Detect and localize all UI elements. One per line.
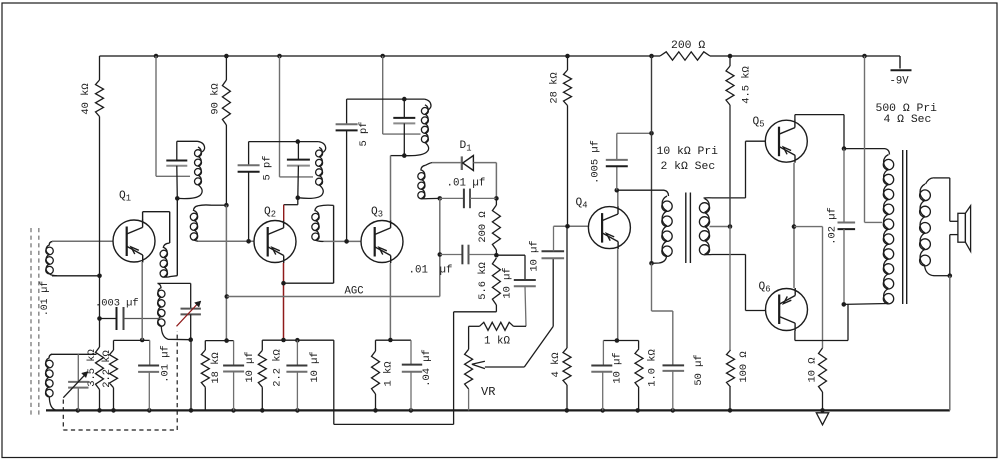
wire speaker lower terminal: [950, 234, 958, 236]
node Q1 base divider: [97, 274, 102, 279]
svg-text:10 µf: 10 µf: [612, 352, 624, 383]
wire 5.6k to bypass route: [454, 311, 497, 313]
wire speaker to ground rail: [949, 235, 951, 276]
svg-text:4 Ω Sec: 4 Ω Sec: [884, 114, 932, 126]
wire output center tap: [864, 56, 866, 222]
node gnd-10uf-b: [295, 408, 300, 413]
node gnd-10uf-c: [600, 408, 605, 413]
node Q4 emitter node: [615, 338, 620, 343]
node gnd-3.5k: [97, 408, 102, 413]
wiper arrow VR: [472, 361, 485, 368]
inductor output secondary: [926, 178, 935, 184]
wire Q2 collector: [297, 198, 299, 205]
transistor Q5: [765, 120, 807, 163]
wire supply to T5: [651, 56, 653, 263]
node .003 tap: [97, 316, 102, 321]
node speaker return: [948, 273, 953, 278]
capacitor C2 .003 uf: [100, 318, 117, 320]
svg-text:10 kΩ Pri: 10 kΩ Pri: [657, 146, 719, 158]
node supply-battery: [862, 54, 867, 59]
svg-text:200 Ω: 200 Ω: [671, 40, 705, 52]
node .005 supply: [649, 131, 654, 136]
wire T1 secondary top to AGC line: [211, 204, 226, 206]
node supply-T3: [380, 54, 385, 59]
wire antenna secondary bottom: [52, 275, 100, 277]
wire tickler to T1 node: [176, 198, 178, 275]
svg-text:10 µf: 10 µf: [244, 351, 256, 382]
wire T1 tank top: [177, 140, 198, 142]
wire T5 primary top: [617, 189, 664, 191]
svg-text:.01 µf: .01 µf: [447, 178, 486, 190]
svg-text:5 pf: 5 pf: [358, 122, 370, 147]
svg-text:3.5 kΩ: 3.5 kΩ: [86, 349, 98, 386]
svg-text:18 kΩ: 18 kΩ: [210, 352, 222, 383]
svg-text:VR: VR: [481, 385, 495, 399]
svg-text:Q3: Q3: [371, 206, 383, 220]
wire AGC bus: [227, 296, 440, 298]
node gnd-100ohm: [728, 408, 733, 413]
resistor R13 1.0 kohm: [638, 341, 640, 349]
resistor R14 4.5 kohm: [729, 56, 731, 66]
svg-text:2.2 kΩ: 2.2 kΩ: [101, 350, 113, 387]
capacitor C6 10 uf (Q2 emitter bypass): [296, 340, 298, 365]
wire T3 tank top: [347, 98, 425, 100]
svg-text:.01: .01: [409, 265, 428, 277]
dashed gang link bottom: [63, 429, 177, 431]
svg-text:40 kΩ: 40 kΩ: [80, 83, 92, 114]
dashed shield line A: [30, 228, 32, 418]
transistor Q6: [766, 288, 808, 331]
resistor R9 5.6 kohm: [492, 258, 500, 305]
wire osc tank top: [158, 282, 191, 284]
capacitor T1 tank cap: [176, 141, 178, 160]
resistor R5 18 kohm: [204, 341, 206, 350]
svg-text:Q1: Q1: [119, 190, 131, 204]
resistor R16 10 ohm: [819, 348, 827, 392]
wire 18k bus: [205, 340, 233, 342]
wire AGC feed line: [225, 205, 227, 340]
capacitor C16 .02 uf: [843, 149, 845, 223]
wire supply rail right section: [710, 55, 900, 57]
wire to 3.5k: [99, 319, 101, 348]
node supply-40k: [154, 54, 159, 59]
svg-text:10 µf: 10 µf: [529, 240, 541, 271]
svg-text:Q2: Q2: [264, 206, 276, 220]
node Q2 base 5pf junction: [246, 239, 251, 244]
wire T2 tank top: [249, 141, 319, 143]
node Q4 collector: [615, 188, 620, 193]
svg-text:100 Ω: 100 Ω: [738, 351, 750, 382]
wire Q4 base: [554, 225, 589, 227]
transformer output core: [902, 150, 904, 304]
node 10uf-b top: [295, 338, 300, 343]
potentiometer VR 1 kohm: [468, 326, 470, 349]
node Q1 emitter junction: [140, 338, 145, 343]
inductor L1b antenna coupling winding: [49, 241, 53, 245]
wire Q1 collector: [142, 212, 144, 221]
inductor T1 primary winding: [198, 141, 205, 152]
wire T1 secondary bottom to Q2 base: [198, 240, 255, 242]
inductor T2 secondary winding: [315, 206, 320, 211]
wire Q3 collector: [391, 155, 405, 157]
inductor T3 secondary winding: [421, 165, 426, 170]
inductor L1a antenna tank winding: [49, 354, 52, 358]
capacitor .003 right lead crossing: [158, 318, 161, 320]
wire antenna tank top: [51, 353, 97, 355]
wire T2 supply tap: [279, 56, 281, 177]
node T3 top: [402, 97, 407, 102]
svg-text:1 kΩ: 1 kΩ: [383, 362, 395, 387]
resistor R6 2.2 kohm (Q2 emitter): [261, 340, 263, 350]
svg-text:50 µf: 50 µf: [693, 354, 705, 385]
inductor T5 secondary: [704, 197, 713, 199]
wire Q4 collector: [617, 190, 619, 206]
wire T5 sec top to Q5 base: [712, 197, 746, 199]
svg-text:4.5 kΩ: 4.5 kΩ: [741, 66, 753, 103]
wire T2 secondary bottom to Q3 base: [324, 240, 362, 242]
node T1 sec top: [224, 203, 229, 208]
svg-text:10 µf: 10 µf: [309, 351, 321, 382]
resistor R11 28 kohm: [567, 56, 569, 70]
inductor L2b oscillator tank winding: [158, 283, 162, 288]
node AGC bus tap: [225, 294, 230, 299]
svg-text:.02 µf: .02 µf: [827, 207, 839, 244]
svg-text:2.2 kΩ: 2.2 kΩ: [272, 349, 284, 386]
wire T2 sec top to emitter: [333, 205, 335, 283]
svg-text:1 kΩ: 1 kΩ: [484, 336, 510, 348]
node osc ground junction: [188, 337, 193, 342]
resistor R10 1 kohm horizontal: [469, 325, 480, 327]
node T3 bottom junction: [402, 153, 407, 158]
wire Q3 emitter bus: [376, 339, 412, 341]
svg-text:28 kΩ: 28 kΩ: [549, 72, 561, 103]
wire T3 supply tap: [382, 56, 384, 134]
svg-text:Q6: Q6: [759, 281, 771, 295]
wire ground rail: [46, 409, 950, 411]
svg-text:4 kΩ: 4 kΩ: [550, 353, 562, 378]
inductor T3 primary winding: [424, 99, 431, 110]
wire Q4 emitter: [617, 249, 619, 340]
wire T5 center tap: [710, 226, 731, 228]
wire antenna secondary top to Q1 base: [52, 240, 113, 242]
transistor Q1: [113, 220, 155, 263]
capacitor T2 tank cap: [297, 142, 299, 160]
inductor L2a oscillator tickler: [163, 243, 169, 248]
capacitor T3 tank cap: [403, 99, 405, 118]
battery -9V terminal: [899, 56, 901, 69]
svg-text:.005 µf: .005 µf: [590, 140, 602, 184]
svg-text:90 kΩ: 90 kΩ: [210, 83, 222, 114]
node Q2 emitter node: [281, 281, 286, 286]
node gnd-1.0k: [635, 408, 640, 413]
wire diode to 200ohm: [473, 162, 496, 164]
node supply-T2: [277, 54, 282, 59]
svg-text:-9V: -9V: [890, 76, 910, 88]
wire to output primary top: [844, 148, 885, 150]
capacitor C4 10 uf (AGC filter): [233, 341, 235, 366]
capacitor C7 5 pf neutralizing 2: [346, 99, 348, 124]
node gnd-2.2k-a: [111, 408, 116, 413]
svg-text:2 kΩ Sec: 2 kΩ Sec: [661, 161, 716, 173]
svg-text:D1: D1: [460, 140, 472, 154]
svg-text:Q4: Q4: [576, 197, 588, 211]
node gnd-2.2k-b: [260, 408, 265, 413]
wire Q4 emitter bus: [603, 340, 638, 342]
capacitor C10 .01 uf AGC: [440, 254, 462, 256]
resistor R2 3.5 kohm: [96, 347, 104, 390]
resistor R8 200 ohm detector: [495, 198, 497, 205]
wire Q2 emitter red: [283, 263, 285, 340]
wire secondary top to speaker: [934, 177, 950, 179]
node detector out: [494, 196, 499, 201]
node supply-4.5k: [728, 54, 733, 59]
wire AGC takeoff: [439, 198, 441, 254]
node gnd-10uf-a: [231, 408, 236, 413]
resistor R7 1 kohm (Q3 emitter): [375, 340, 377, 351]
svg-text:Q5: Q5: [753, 116, 765, 130]
node Q2 emitter bus: [281, 338, 286, 343]
capacitor C15 50 uf: [651, 263, 653, 311]
node gnd-1k: [373, 408, 378, 413]
wire supply to T1 tap: [155, 56, 157, 176]
node T5 primary bottom: [649, 261, 654, 266]
svg-text:5.6 kΩ: 5.6 kΩ: [477, 262, 489, 299]
resistor R4 90 kohm: [225, 56, 227, 80]
variable capacitor C1a antenna tuning: [77, 354, 79, 382]
wire T5 sec bottom to Q6 base: [712, 254, 746, 256]
node T2 bottom junction: [296, 195, 301, 200]
node emitter tap: [792, 224, 797, 229]
svg-text:.01 µf: .01 µf: [39, 281, 50, 316]
svg-text:10 µf: 10 µf: [502, 267, 514, 298]
wire Q6 collector: [794, 331, 796, 341]
capacitor C9 .01 uf detector filter: [440, 197, 464, 199]
wire secondary bottom: [934, 275, 950, 277]
dashed shield line B: [38, 228, 40, 418]
svg-text:.04 µf: .04 µf: [421, 349, 433, 386]
wire Q2 emitter bus: [262, 339, 334, 341]
variable capacitor C1b oscillator tuning: [190, 283, 192, 308]
node T3 sec bottom: [438, 196, 443, 201]
wire Q5 collector: [794, 115, 796, 120]
node supply-28k: [565, 54, 570, 59]
wire osc to ground: [190, 340, 192, 411]
capacitor C12 10 uf coupling: [542, 250, 565, 252]
node gnd-10ohm: [820, 408, 825, 413]
resistor R12 4 kohm: [566, 226, 568, 348]
wire Q1 emitter: [141, 262, 143, 340]
speaker LS1: [958, 213, 966, 242]
node Q4 base bias: [565, 224, 570, 229]
diode D1: [461, 156, 463, 170]
wire Q1 emitter bus: [114, 339, 150, 341]
svg-text:AGC: AGC: [345, 286, 364, 298]
capacitor C5 5 pf neutralizing: [248, 142, 250, 166]
node supply-90k: [224, 54, 229, 59]
node gnd-.04uf: [409, 408, 414, 413]
capacitor C11 10 uf (detector): [496, 254, 525, 256]
capacitor C13 .005 uf: [616, 166, 618, 190]
inductor T2 primary winding: [319, 142, 326, 153]
wire emitter to 10 ohm: [794, 226, 823, 228]
inductor T1 secondary winding: [193, 206, 198, 211]
node gnd-osc: [189, 408, 194, 413]
wire T3 sec to diode: [432, 162, 461, 164]
resistor R1 40 kohm: [99, 56, 101, 80]
transistor Q4: [588, 206, 630, 249]
ground symbol: [816, 413, 828, 425]
node Q3 emitter node: [388, 338, 393, 343]
svg-text:.01 µf: .01 µf: [160, 345, 172, 382]
node gnd-antcap: [76, 408, 81, 413]
capacitor C8 .04 uf: [410, 340, 412, 364]
capacitor C14 10 uf (Q4 emitter): [602, 341, 604, 366]
node 18k node: [224, 338, 229, 343]
resistor R-200ohm (200 &#937;) in supply rail: [660, 52, 710, 60]
node Q5 collector out: [842, 146, 847, 151]
resistor R3 2.2 kohm (Q1 emitter): [113, 340, 115, 350]
node volume top: [494, 253, 499, 258]
node supply-T5: [649, 54, 654, 59]
dashed gang link from C1a: [62, 400, 64, 431]
svg-text:200 Ω: 200 Ω: [477, 211, 489, 242]
node output primary bottom: [842, 302, 847, 307]
capacitor C3 .01 uf (Q1 emitter bypass): [149, 340, 151, 365]
resistor R15 100 ohm: [729, 227, 731, 351]
dashed gang link to C1b: [176, 331, 178, 430]
inductor output primary: [885, 149, 890, 155]
node gnd-4k: [565, 408, 570, 413]
svg-text:1.0 kΩ: 1.0 kΩ: [647, 349, 659, 386]
transistor Q3: [361, 220, 403, 263]
node gnd-50uf: [671, 408, 676, 413]
transformer T5 core: [685, 193, 687, 264]
svg-text:10 Ω: 10 Ω: [807, 358, 819, 383]
wire supply rail left section: [100, 55, 661, 57]
node AGC cap left: [438, 252, 443, 257]
wire Q3 emitter: [389, 263, 391, 340]
svg-text:µf: µf: [440, 265, 453, 277]
wire 40k to .003 junction: [99, 276, 101, 319]
inductor T5 primary: [664, 190, 669, 196]
svg-text:.003 µf: .003 µf: [95, 298, 139, 310]
node gnd-.01uf: [147, 408, 152, 413]
node T2 top: [296, 139, 301, 144]
svg-text:5 pf: 5 pf: [262, 156, 274, 181]
node T5 center tap: [728, 224, 733, 229]
node Q3 base 5pf junction: [344, 239, 349, 244]
wire Q5-Q6 emitters: [793, 163, 795, 288]
node T1 bottom junction: [175, 196, 180, 201]
transistor Q2: [254, 220, 296, 263]
